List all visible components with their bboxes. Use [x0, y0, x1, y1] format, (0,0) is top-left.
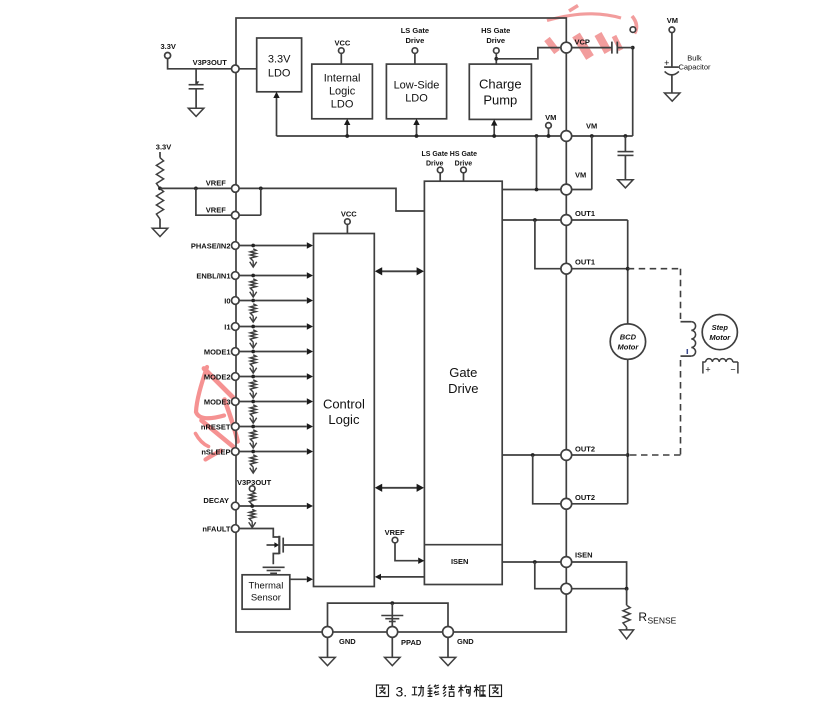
svg-text:ISEN: ISEN	[451, 557, 469, 566]
svg-text:Logic: Logic	[329, 86, 356, 98]
svg-text:Internal: Internal	[324, 73, 361, 85]
svg-text:VM: VM	[586, 122, 597, 131]
svg-text:I1: I1	[224, 322, 230, 331]
svg-text:MODE3: MODE3	[204, 397, 231, 406]
svg-text:VREF: VREF	[206, 205, 226, 214]
svg-text:OUT1: OUT1	[575, 257, 595, 266]
svg-text:3.3V: 3.3V	[268, 54, 291, 66]
svg-text:R: R	[638, 610, 647, 624]
svg-text:3.3V: 3.3V	[160, 42, 175, 51]
svg-text:nFAULT: nFAULT	[202, 524, 231, 533]
svg-text:OUT2: OUT2	[575, 445, 595, 454]
svg-text:PPAD: PPAD	[401, 638, 422, 647]
svg-text:Control: Control	[323, 397, 365, 412]
svg-text:VCP: VCP	[575, 37, 590, 46]
svg-text:VM: VM	[667, 16, 678, 25]
svg-text:VREF: VREF	[206, 179, 226, 188]
svg-text:ISEN: ISEN	[575, 551, 593, 560]
svg-text:MODE1: MODE1	[204, 347, 231, 356]
svg-text:DECAY: DECAY	[203, 496, 229, 505]
svg-text:−: −	[730, 365, 735, 375]
svg-text:ENBL/IN1: ENBL/IN1	[196, 271, 230, 280]
svg-text:+: +	[705, 365, 710, 375]
svg-text:Capacitor: Capacitor	[678, 63, 711, 72]
svg-text:MODE2: MODE2	[204, 372, 231, 381]
svg-text:VM: VM	[575, 171, 586, 180]
svg-text:LS Gate: LS Gate	[401, 26, 429, 35]
svg-text:Logic: Logic	[328, 412, 360, 427]
svg-text:nRESET: nRESET	[201, 422, 231, 431]
svg-text:VCC: VCC	[341, 210, 357, 219]
svg-text:LS Gate: LS Gate	[421, 151, 448, 158]
svg-text:LDO: LDO	[268, 68, 291, 80]
svg-text:LDO: LDO	[331, 99, 354, 111]
svg-text:OUT1: OUT1	[575, 209, 595, 218]
svg-text:GND: GND	[457, 637, 474, 646]
svg-text:Gate: Gate	[449, 365, 477, 380]
svg-text:V3P3OUT: V3P3OUT	[193, 58, 228, 67]
svg-text:VCC: VCC	[334, 39, 350, 48]
svg-text:Sensor: Sensor	[251, 593, 281, 604]
svg-text:OUT2: OUT2	[575, 493, 595, 502]
svg-text:VREF: VREF	[385, 528, 405, 537]
svg-text:nSLEEP: nSLEEP	[201, 447, 230, 456]
svg-text:Drive: Drive	[448, 381, 478, 396]
svg-text:Charge: Charge	[479, 77, 522, 92]
svg-text:SENSE: SENSE	[648, 616, 677, 626]
svg-text:3.: 3.	[396, 684, 408, 700]
svg-text:Drive: Drive	[406, 36, 425, 45]
svg-text:GND: GND	[339, 637, 356, 646]
svg-text:VM: VM	[545, 113, 556, 122]
svg-text:Motor: Motor	[617, 343, 639, 352]
svg-text:Step: Step	[712, 323, 729, 332]
svg-text:Low-Side: Low-Side	[394, 80, 440, 92]
svg-text:BCD: BCD	[620, 333, 637, 342]
svg-text:PHASE/IN2: PHASE/IN2	[191, 241, 231, 250]
svg-text:Pump: Pump	[483, 93, 517, 108]
svg-text:HS Gate: HS Gate	[481, 26, 510, 35]
svg-text:Motor: Motor	[709, 333, 731, 342]
svg-text:Drive: Drive	[486, 36, 505, 45]
svg-text:LDO: LDO	[405, 93, 428, 105]
svg-text:Bulk: Bulk	[687, 54, 702, 63]
svg-text:HS Gate: HS Gate	[450, 151, 477, 158]
svg-text:I0: I0	[224, 296, 230, 305]
svg-text:Thermal: Thermal	[248, 581, 283, 592]
svg-text:3.3V: 3.3V	[156, 143, 171, 152]
